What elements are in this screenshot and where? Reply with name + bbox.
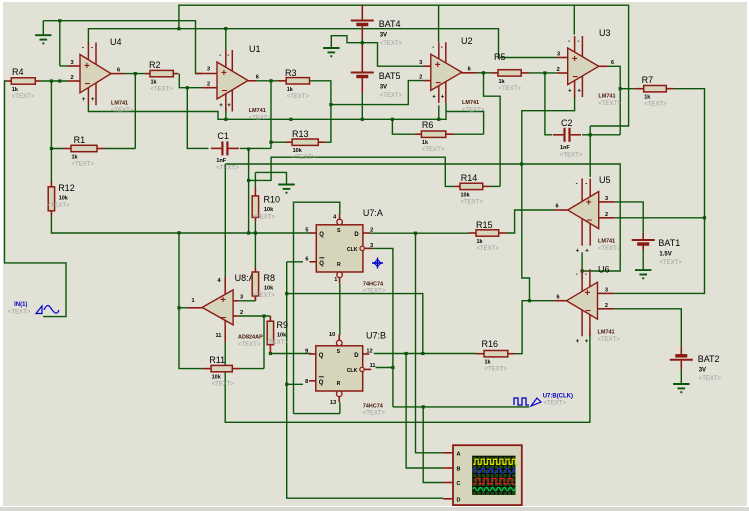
- svg-text:LM741: LM741: [462, 100, 479, 106]
- node n20: [422, 405, 425, 408]
- wire BAT1 gnd wire: [642, 251, 644, 271]
- wire top rail: [179, 5, 629, 126]
- wire U1 out row: [256, 80, 278, 82]
- wire R8 bottom wire: [254, 296, 256, 301]
- wire U7B D wire: [374, 353, 476, 355]
- svg-text:74HC74: 74HC74: [363, 281, 384, 287]
- pin U1 minus stub: [202, 87, 217, 89]
- svg-text:6: 6: [557, 295, 560, 301]
- svg-text:R16: R16: [482, 339, 499, 349]
- wire R16 to U6 out: [515, 301, 555, 354]
- svg-text:+: +: [221, 68, 227, 79]
- resistor R7: [635, 86, 674, 92]
- svg-text:1k: 1k: [477, 239, 484, 245]
- node n39: [247, 231, 250, 234]
- ground G2: [323, 48, 339, 56]
- svg-text:Q: Q: [319, 261, 324, 267]
- pin U1 out stub: [248, 80, 256, 82]
- svg-text:11: 11: [216, 333, 222, 339]
- svg-text:<TEXT>: <TEXT>: [253, 293, 276, 299]
- node n16: [247, 179, 250, 182]
- svg-text:BAT1: BAT1: [658, 238, 680, 248]
- pin U5 out stub: [554, 209, 568, 211]
- svg-text:R13: R13: [292, 129, 309, 139]
- ground G1: [35, 35, 51, 43]
- wire U2 minus wire: [331, 81, 423, 105]
- wire R7 left wire: [620, 88, 635, 90]
- svg-text:BAT4: BAT4: [379, 19, 401, 29]
- svg-text:3: 3: [557, 52, 560, 58]
- wire BAT2 gnd wire: [680, 369, 682, 384]
- node n1: [50, 79, 53, 82]
- wire scope A drop: [416, 233, 444, 453]
- wire CLK H probe: [393, 406, 529, 408]
- svg-text:<TEXT>: <TEXT>: [266, 340, 289, 346]
- svg-text:6: 6: [256, 75, 259, 81]
- wire U5 plus row: [615, 202, 643, 233]
- pin U4 plus stub: [68, 65, 80, 67]
- node n34: [285, 292, 288, 295]
- wire U7A R to U7B S: [339, 284, 341, 336]
- wire R10 gnd step2: [255, 172, 286, 184]
- wire H157 link: [249, 157, 455, 186]
- pin U4 minus stub: [68, 80, 80, 82]
- wire R7 right net: [614, 89, 705, 294]
- svg-text:<TEXT>: <TEXT>: [111, 108, 134, 114]
- svg-text:10k: 10k: [264, 286, 274, 292]
- svg-text:10k: 10k: [277, 333, 287, 339]
- svg-text:+: +: [585, 249, 589, 255]
- wire U7A D wire: [369, 232, 468, 234]
- resistor R14: [455, 183, 490, 189]
- node n15: [520, 162, 523, 165]
- node n17: [254, 231, 257, 234]
- wire IN to R4: [5, 81, 67, 317]
- op-amp U1: [217, 50, 248, 112]
- wire U4 feedback: [134, 74, 136, 149]
- wire U2 Vminus tap: [438, 105, 440, 119]
- svg-text:<TEXT>: <TEXT>: [462, 108, 485, 114]
- svg-text:U2: U2: [461, 36, 473, 46]
- svg-text:-: -: [441, 45, 443, 51]
- wire U8 out fb: [179, 233, 203, 369]
- svg-text:1k: 1k: [644, 95, 651, 101]
- ground G4: [635, 270, 651, 278]
- svg-text:U1: U1: [249, 44, 261, 54]
- node n28: [224, 27, 227, 30]
- svg-text:+: +: [84, 61, 90, 72]
- svg-text:1k: 1k: [499, 79, 506, 85]
- svg-text:−: −: [572, 72, 578, 83]
- svg-text:−: −: [586, 216, 592, 227]
- node n3: [177, 27, 180, 30]
- svg-text:−: −: [585, 306, 591, 317]
- wire R10-R8 column: [254, 221, 256, 268]
- node n26: [177, 306, 180, 309]
- resistor R13: [286, 139, 325, 145]
- svg-text:2: 2: [605, 212, 608, 218]
- svg-text:+: +: [572, 54, 578, 65]
- svg-text:-: -: [82, 46, 84, 52]
- svg-text:+: +: [585, 339, 589, 345]
- generator IN: [8, 302, 59, 316]
- svg-text:<TEXT>: <TEXT>: [151, 87, 174, 93]
- svg-text:U7:A: U7:A: [363, 208, 383, 218]
- svg-text:<TEXT>: <TEXT>: [212, 382, 235, 388]
- svg-text:<TEXT>: <TEXT>: [287, 94, 310, 100]
- svg-text:AD824AP: AD824AP: [238, 335, 263, 341]
- svg-text:U6: U6: [598, 265, 610, 275]
- wire U4 plus drop: [59, 21, 61, 66]
- resistor R1: [63, 145, 105, 151]
- node n33: [289, 118, 292, 121]
- wire U2 pin1 to R6: [446, 112, 484, 135]
- wire long H164: [225, 164, 620, 279]
- svg-text:10: 10: [329, 332, 335, 338]
- wire H233 Q row: [51, 216, 309, 234]
- wire U7B R wire: [339, 403, 341, 414]
- svg-text:R12: R12: [58, 183, 75, 193]
- wire BAT5 top stem wire: [361, 43, 363, 68]
- node n18: [405, 352, 408, 355]
- svg-text:S: S: [337, 349, 341, 355]
- svg-text:3V: 3V: [380, 85, 387, 91]
- svg-text:R2: R2: [149, 60, 161, 70]
- wire U1 fb vert: [270, 81, 272, 149]
- svg-text:10k: 10k: [293, 148, 303, 154]
- op-amp U8:A: [202, 277, 233, 342]
- svg-text:3V: 3V: [380, 33, 387, 39]
- op-amp U6: [567, 269, 598, 345]
- svg-text:<TEXT>: <TEXT>: [485, 367, 508, 373]
- svg-text:+: +: [586, 198, 592, 209]
- svg-text:1k: 1k: [12, 87, 19, 93]
- node n13: [589, 133, 592, 136]
- svg-text:R10: R10: [264, 195, 281, 205]
- pin U3 out stub: [599, 65, 608, 67]
- wire scope C drop: [423, 407, 443, 483]
- wire U7B Q wire: [270, 353, 311, 355]
- node n29: [247, 147, 250, 150]
- svg-text:LM741: LM741: [598, 94, 615, 100]
- svg-text:9: 9: [305, 349, 308, 355]
- svg-text:2: 2: [370, 228, 373, 234]
- wire U5 minus row: [615, 217, 705, 219]
- resistor R9: [267, 316, 273, 353]
- svg-text:LM741: LM741: [249, 108, 266, 114]
- wire R11 up: [263, 316, 265, 369]
- svg-text:2: 2: [240, 310, 243, 316]
- svg-text:-: -: [227, 53, 229, 59]
- svg-text:C1: C1: [217, 131, 229, 141]
- svg-text:10k: 10k: [461, 192, 471, 198]
- svg-text:<TEXT>: <TEXT>: [216, 166, 239, 172]
- svg-text:IN(1): IN(1): [14, 302, 27, 308]
- ground G5: [673, 384, 689, 392]
- pin U4 out stub: [111, 73, 125, 75]
- pin U6 plus stub: [598, 292, 614, 294]
- svg-text:+: +: [441, 94, 445, 100]
- svg-text:6: 6: [556, 204, 559, 210]
- svg-text:6: 6: [468, 67, 471, 73]
- svg-text:1.5V: 1.5V: [659, 252, 671, 258]
- pin U1 plus stub: [196, 73, 218, 75]
- svg-text:<TEXT>: <TEXT>: [644, 102, 667, 108]
- svg-text:U3: U3: [599, 28, 611, 38]
- svg-text:<TEXT>: <TEXT>: [380, 93, 403, 99]
- svg-text:74HC74: 74HC74: [363, 404, 384, 410]
- wire R2 to U1: [179, 74, 202, 88]
- resistor R10: [252, 187, 258, 221]
- svg-text:<TEXT>: <TEXT>: [72, 162, 95, 168]
- wire U3 Vplus drop: [573, 5, 575, 35]
- svg-text:6: 6: [611, 60, 614, 66]
- wire R13 left wire: [271, 141, 286, 143]
- svg-text:6: 6: [305, 256, 308, 262]
- svg-text:R15: R15: [476, 220, 493, 230]
- svg-text:R7: R7: [642, 75, 654, 85]
- svg-text:-: -: [576, 182, 578, 188]
- resistor R6: [415, 131, 454, 137]
- op-amp U2: [431, 42, 462, 103]
- wire R11 right wire: [241, 368, 265, 370]
- svg-text:+: +: [91, 97, 95, 103]
- wire U8 minus row: [239, 315, 271, 317]
- svg-text:3: 3: [71, 60, 74, 66]
- svg-text:R9: R9: [277, 320, 289, 330]
- battery BAT4: [351, 5, 374, 39]
- svg-text:-: -: [577, 39, 579, 45]
- svg-text:+: +: [576, 339, 580, 345]
- wire ground rail A: [43, 21, 202, 74]
- svg-text:11: 11: [370, 363, 376, 369]
- svg-text:CLK: CLK: [347, 368, 358, 374]
- svg-text:-: -: [219, 53, 221, 59]
- resistor R16: [476, 351, 515, 357]
- svg-text:<TEXT>: <TEXT>: [461, 199, 484, 205]
- svg-text:<TEXT>: <TEXT>: [238, 342, 261, 348]
- node n10: [437, 118, 440, 121]
- svg-text:3: 3: [605, 196, 608, 202]
- svg-text:1k: 1k: [151, 80, 158, 86]
- wire U7A S wire: [294, 202, 340, 413]
- wire scope B drop: [406, 354, 443, 469]
- wire R6 left wire: [392, 119, 415, 134]
- svg-text:2: 2: [207, 82, 210, 88]
- wire U2 out to R14: [484, 73, 501, 187]
- svg-text:B: B: [457, 467, 461, 473]
- wire R10 gnd step: [254, 172, 256, 187]
- resistor R3: [278, 78, 310, 84]
- svg-text:1k: 1k: [485, 360, 492, 366]
- svg-text:D: D: [354, 232, 359, 238]
- node n4: [50, 147, 53, 150]
- svg-text:+: +: [219, 103, 223, 109]
- wire CLK down: [392, 368, 394, 407]
- node n36: [177, 231, 180, 234]
- svg-text:D: D: [457, 497, 461, 503]
- wire U8 out row: [179, 307, 187, 309]
- pin U8 plus stub: [233, 300, 239, 302]
- svg-text:R1: R1: [74, 135, 86, 145]
- svg-text:<TEXT>: <TEXT>: [12, 94, 35, 100]
- svg-text:<TEXT>: <TEXT>: [477, 246, 500, 252]
- svg-text:A: A: [457, 451, 461, 457]
- pin U8 out stub: [187, 307, 202, 309]
- resistor R5: [490, 70, 529, 76]
- svg-text:<TEXT>: <TEXT>: [499, 86, 522, 92]
- wire Qbar down to scope D: [287, 262, 444, 498]
- svg-text:<TEXT>: <TEXT>: [422, 147, 445, 153]
- svg-text:10k: 10k: [264, 207, 274, 213]
- svg-text:3V: 3V: [699, 368, 706, 374]
- svg-text:CLK: CLK: [347, 247, 358, 253]
- node n27: [58, 79, 61, 82]
- node n14: [619, 87, 622, 90]
- svg-text:U5: U5: [599, 175, 611, 185]
- svg-text:BAT5: BAT5: [379, 71, 401, 81]
- svg-text:LM741: LM741: [111, 101, 128, 107]
- svg-text:<TEXT>: <TEXT>: [47, 203, 70, 209]
- wire U4 plus in: [60, 65, 68, 67]
- svg-text:3: 3: [370, 243, 373, 249]
- wire U5 Vminus down: [581, 252, 583, 271]
- pin U8 minus stub: [233, 315, 239, 317]
- wire U6 minus row: [614, 309, 682, 347]
- svg-text:+: +: [220, 295, 226, 306]
- svg-text:<TEXT>: <TEXT>: [598, 246, 621, 252]
- wire R14 right wire: [489, 185, 500, 187]
- svg-text:3: 3: [605, 287, 608, 293]
- svg-text:R: R: [337, 262, 341, 268]
- marker origin cross: [372, 258, 383, 269]
- wire R1 node to R12: [50, 149, 52, 182]
- pin U2 plus stub: [423, 65, 431, 67]
- battery BAT1: [632, 233, 655, 251]
- svg-text:C: C: [457, 481, 461, 487]
- node n5: [269, 79, 272, 82]
- svg-text:-: -: [432, 45, 434, 51]
- svg-text:+: +: [577, 89, 581, 95]
- wire U7B Qbar wire: [287, 383, 303, 385]
- svg-text:Q: Q: [319, 353, 324, 359]
- wire R4 to U4: [41, 80, 68, 82]
- svg-text:1nF: 1nF: [560, 145, 570, 151]
- pin U3 minus stub: [557, 72, 568, 74]
- wire U7B R horizontal: [294, 413, 340, 415]
- battery BAT5: [351, 68, 374, 94]
- wire Qbar to DB link: [287, 294, 423, 354]
- wire Vplus rail U4-U1: [88, 29, 225, 51]
- node n12: [543, 71, 546, 74]
- ground G3: [278, 185, 294, 193]
- svg-text:<TEXT>: <TEXT>: [560, 153, 583, 159]
- svg-text:R14: R14: [461, 173, 478, 183]
- svg-text:<TEXT>: <TEXT>: [699, 376, 722, 382]
- resistor R4: [7, 78, 41, 84]
- node n22: [285, 383, 288, 386]
- wire G1 stem: [42, 21, 44, 36]
- op-amp U5: [568, 179, 599, 255]
- wire inv node down: [51, 81, 63, 149]
- svg-text:3: 3: [419, 60, 422, 66]
- wire U1 Vminus tap: [225, 108, 227, 120]
- pin U5 plus stub: [599, 201, 615, 203]
- svg-text:+: +: [82, 97, 86, 103]
- svg-text:R: R: [337, 381, 341, 387]
- node n7: [329, 103, 332, 106]
- wire U3 out wire: [608, 66, 620, 135]
- svg-text:+: +: [435, 60, 441, 71]
- resistor R8: [252, 268, 258, 301]
- wire U4 out row: [125, 73, 145, 75]
- flip-flop U7:A: [310, 214, 372, 284]
- svg-text:-: -: [568, 39, 570, 45]
- wire Vminus bottom rail: [225, 330, 590, 422]
- wire C2 left feed: [545, 73, 552, 135]
- wire V1 node down: [248, 149, 250, 233]
- svg-text:4: 4: [333, 215, 337, 221]
- svg-text:13: 13: [330, 400, 336, 406]
- svg-text:R8: R8: [264, 273, 276, 283]
- wire U3 Vminus: [522, 95, 575, 300]
- svg-text:+: +: [576, 249, 580, 255]
- flip-flop U7:B: [309, 335, 371, 403]
- svg-text:R11: R11: [209, 355, 225, 365]
- op-amp U4: [80, 43, 111, 106]
- wire U8 Vminus wire: [224, 333, 226, 340]
- svg-text:Q: Q: [319, 232, 324, 238]
- svg-text:C2: C2: [561, 118, 573, 128]
- node n6: [269, 141, 272, 144]
- svg-text:+: +: [227, 103, 231, 109]
- wire U3 plus feed: [226, 29, 557, 58]
- svg-text:U4: U4: [110, 37, 122, 47]
- wire C1 left wire: [187, 88, 208, 149]
- svg-text:R6: R6: [422, 120, 434, 130]
- svg-text:<TEXT>: <TEXT>: [363, 289, 386, 295]
- node n2: [134, 72, 137, 75]
- node n8: [361, 41, 364, 44]
- svg-text:8: 8: [305, 379, 308, 385]
- wire Vminus rail: [88, 103, 446, 119]
- node n37: [391, 366, 394, 369]
- svg-text:R3: R3: [285, 68, 297, 78]
- svg-text:-: -: [585, 272, 587, 278]
- pin U6 out stub: [554, 300, 566, 302]
- pin U6 minus stub: [598, 308, 614, 310]
- node n23: [224, 118, 227, 121]
- svg-text:<TEXT>: <TEXT>: [363, 411, 386, 417]
- pin U2 out stub: [460, 72, 477, 74]
- svg-text:5: 5: [305, 228, 308, 234]
- svg-text:1: 1: [192, 298, 195, 304]
- svg-text:2: 2: [71, 75, 74, 81]
- svg-text:<TEXT>: <TEXT>: [293, 155, 316, 161]
- node n35: [421, 352, 424, 355]
- pin U2 minus stub: [423, 80, 431, 82]
- svg-text:4: 4: [218, 278, 222, 284]
- resistor R15: [469, 230, 508, 236]
- svg-text:−: −: [85, 79, 91, 90]
- svg-text:Q: Q: [319, 380, 324, 386]
- resistor R12: [48, 182, 54, 216]
- resistor R11: [203, 365, 241, 371]
- svg-text:D: D: [354, 353, 359, 359]
- svg-text:<TEXT>: <TEXT>: [8, 310, 31, 316]
- op-amp U3: [568, 36, 599, 97]
- pin U3 plus stub: [557, 57, 568, 59]
